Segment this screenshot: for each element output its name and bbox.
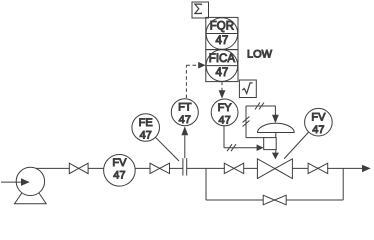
svg-text:FV: FV [311, 112, 326, 124]
orifice plate FE flange line left [182, 158, 184, 175]
wire: FE leader line to orifice [156, 137, 180, 161]
wire: bypass up leg [342, 168, 344, 200]
valve V2 (block valve) [150, 163, 160, 173]
wire: pump inlet line [1, 181, 22, 183]
svg-text:47: 47 [216, 67, 229, 79]
wire: FV tag leader line [284, 132, 309, 159]
wire: positioner loop left horizontal [246, 137, 264, 139]
wire: bypass down leg [205, 168, 207, 200]
wire: positioner loop vertical [245, 106, 247, 138]
wire: main pipe right run [187, 167, 363, 169]
orifice plate FE flange line right [186, 158, 188, 175]
instrument bubble FE 47 [132, 114, 160, 142]
svg-text:47: 47 [140, 130, 152, 142]
instrument bubble FV 47 (inline, left) [104, 155, 136, 187]
svg-text:FT: FT [178, 102, 192, 114]
svg-text:FE: FE [139, 117, 153, 129]
wire: loop drop to actuator [274, 106, 276, 115]
svg-text:FV: FV [112, 157, 127, 169]
wire: main pipe left run [31, 167, 183, 169]
wire: dashed electric signal right into FICA [186, 64, 198, 66]
shared display square FQR [206, 17, 238, 49]
svg-text:FICA: FICA [209, 53, 236, 65]
svg-text:FQR: FQR [210, 21, 234, 33]
positioner box [264, 138, 277, 150]
wire: FT impulse line from orifice [184, 135, 186, 158]
node: arrow onto actuator dome [272, 115, 279, 123]
instrument circle FQR 47 [206, 18, 238, 50]
valve V4 (block valve) [308, 163, 318, 173]
instrument bubble FT 47 [171, 99, 198, 126]
instrument bubble FV 47 (valve tag) [305, 108, 333, 136]
actuator diaphragm dome [258, 123, 295, 132]
node: pump inlet flow arrow [21, 178, 30, 186]
svg-text:47: 47 [218, 114, 230, 126]
wire: FY output signal down [223, 126, 225, 148]
square root function box [239, 80, 256, 98]
pneumatic slash marks on loop vertical [243, 117, 250, 127]
shared display square FICA [206, 50, 238, 82]
valve stem [275, 133, 277, 154]
node: arrow into FY [219, 90, 226, 98]
instrument circle FICA 47 [206, 50, 238, 82]
svg-text:FY: FY [218, 102, 233, 114]
pump P casing circle [16, 167, 44, 195]
wire: FY output signal right to positioner [224, 147, 257, 149]
svg-text:47: 47 [216, 35, 229, 47]
node: flow direction arrow at pipe outlet [362, 165, 371, 172]
valve V5 (bypass valve) [263, 195, 274, 205]
node: arrow into valve body [272, 153, 279, 160]
wire: bypass bottom run [206, 199, 343, 201]
wire: positioner loop top horizontal [246, 105, 275, 107]
pneumatic slash marks on FY output [227, 144, 236, 151]
wire: dashed electric signal FICA down to FY [221, 82, 223, 91]
svg-text:47: 47 [113, 170, 125, 182]
node: arrow into FICA [198, 62, 205, 69]
node: arrow into positioner [257, 144, 264, 151]
control valve FV body [257, 159, 275, 179]
node: arrow into FT [181, 126, 188, 135]
pump P base skirt [15, 193, 47, 204]
valve V3 (block valve) [224, 163, 234, 173]
wire: dashed electric signal FT up [185, 65, 187, 98]
summer function box Σ [192, 2, 209, 18]
instrument bubble FY 47 [211, 99, 238, 126]
valve V1 (block valve) [69, 163, 78, 173]
svg-text:47: 47 [179, 114, 191, 126]
pneumatic slash marks on loop top [255, 103, 264, 110]
svg-text:LOW: LOW [247, 48, 273, 60]
svg-text:47: 47 [312, 124, 324, 136]
